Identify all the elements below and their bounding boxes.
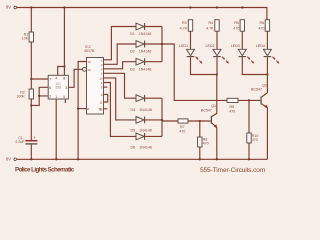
node A junction R1/R2/pin7 bbox=[30, 78, 32, 80]
resistor R7 bbox=[178, 119, 188, 133]
node 0V terminal bbox=[6, 156, 17, 161]
diode D1 bbox=[130, 23, 151, 36]
svg-text:BC547: BC547 bbox=[251, 88, 262, 92]
resistor R9 bbox=[227, 98, 238, 113]
svg-text:Q2: Q2 bbox=[262, 83, 267, 87]
resistor R3 bbox=[180, 20, 193, 32]
diode D4 bbox=[131, 95, 152, 112]
node junction top bus bbox=[161, 43, 163, 45]
svg-text:1N4148: 1N4148 bbox=[139, 32, 152, 36]
node junction rail-R10 bbox=[248, 158, 250, 160]
svg-text:470: 470 bbox=[179, 129, 185, 133]
svg-text:9V: 9V bbox=[6, 4, 11, 9]
svg-text:D4: D4 bbox=[131, 108, 136, 112]
wire R9 to Q2 base bbox=[238, 99, 260, 101]
diode D5 bbox=[131, 117, 152, 133]
svg-text:470: 470 bbox=[229, 109, 235, 113]
svg-text:470: 470 bbox=[203, 141, 209, 145]
svg-text:D2: D2 bbox=[130, 50, 135, 54]
node junction LED pair 1 bbox=[216, 73, 218, 75]
svg-text:6: 6 bbox=[49, 86, 51, 90]
wire CO stub bbox=[104, 108, 108, 110]
node junction rail-C1 bbox=[30, 158, 32, 160]
svg-text:4017B: 4017B bbox=[84, 49, 95, 53]
wire D4 cathode bbox=[145, 97, 162, 99]
wire R2 to node B bbox=[30, 99, 32, 140]
svg-text:10K: 10K bbox=[22, 37, 29, 41]
svg-text:+: + bbox=[33, 135, 36, 140]
wire O2 to D3 bbox=[104, 62, 137, 69]
wire D5 cathode bbox=[145, 119, 162, 121]
resistor R1 bbox=[22, 32, 34, 42]
svg-text:13: 13 bbox=[87, 60, 91, 64]
op-amp U2 4017 IC body bbox=[84, 45, 104, 114]
node junction R8 tap bbox=[199, 120, 201, 122]
svg-text:1N4148: 1N4148 bbox=[139, 129, 152, 133]
LED LED4 bbox=[256, 44, 279, 63]
resistor R2 bbox=[16, 89, 33, 99]
wire C1 to ground rail bbox=[30, 145, 32, 160]
svg-text:12: 12 bbox=[99, 107, 103, 111]
svg-text:1N4148: 1N4148 bbox=[139, 67, 152, 71]
svg-text:3: 3 bbox=[65, 86, 67, 90]
wire rail to R1 bbox=[30, 8, 32, 33]
wire LED1 cathode bbox=[191, 57, 217, 74]
svg-text:100K: 100K bbox=[16, 95, 25, 99]
diode D2 bbox=[130, 41, 151, 54]
resistor R5 bbox=[233, 20, 244, 32]
wire R8 drop bbox=[199, 121, 201, 137]
svg-text:BC547: BC547 bbox=[201, 109, 212, 113]
svg-text:1: 1 bbox=[55, 95, 57, 99]
svg-text:1N4148: 1N4148 bbox=[139, 146, 152, 150]
svg-text:Police Lights Schematic: Police Lights Schematic bbox=[15, 167, 75, 174]
svg-text:11: 11 bbox=[99, 101, 102, 105]
node junction rail-R5 bbox=[241, 6, 243, 8]
svg-text:1N4148: 1N4148 bbox=[139, 50, 152, 54]
node junction pin4/pin8 supply bbox=[63, 65, 65, 67]
svg-text:D1: D1 bbox=[130, 32, 135, 36]
wire bottom diode bus bbox=[162, 98, 178, 136]
LED LED2 bbox=[206, 44, 229, 63]
svg-text:555-Timer-Circuits.com: 555-Timer-Circuits.com bbox=[200, 167, 266, 174]
wire 0V ground rail bbox=[17, 158, 268, 160]
wire D3 cathode bbox=[145, 61, 162, 63]
svg-text:555: 555 bbox=[55, 86, 61, 90]
wire 555 pin 3 to 4017 CLK bbox=[68, 69, 82, 87]
wire R7 to Q1 base bbox=[188, 120, 211, 122]
svg-text:5: 5 bbox=[63, 95, 65, 99]
wire R3 to LED1 bbox=[190, 31, 192, 49]
transistor Q1 bbox=[201, 75, 217, 160]
resistor R4 bbox=[206, 20, 219, 32]
wire O3 to D4 bbox=[104, 73, 137, 98]
node junction rail-R8 bbox=[199, 158, 201, 160]
wire LED4 cathode bbox=[266, 57, 268, 74]
svg-text:470: 470 bbox=[252, 138, 258, 142]
svg-text:R4: R4 bbox=[208, 21, 213, 25]
wire D2 cathode bbox=[145, 43, 162, 45]
resistor R10 bbox=[247, 133, 259, 143]
svg-text:D3: D3 bbox=[130, 67, 135, 71]
node junction EN/MR bbox=[77, 107, 79, 109]
svg-text:LED1: LED1 bbox=[179, 44, 188, 48]
wire O1 to D2 bbox=[104, 44, 137, 64]
wire R5 to LED3 bbox=[241, 31, 243, 49]
svg-text:2: 2 bbox=[49, 95, 51, 99]
wire top diode bus bbox=[162, 27, 227, 101]
svg-text:LED2: LED2 bbox=[206, 44, 215, 48]
node junction bottom bus bbox=[161, 119, 163, 121]
svg-text:Q1: Q1 bbox=[211, 104, 216, 108]
resistor R8 bbox=[198, 137, 209, 147]
svg-text:1N4148: 1N4148 bbox=[139, 108, 152, 112]
diode D3 bbox=[130, 58, 151, 71]
svg-text:LED3: LED3 bbox=[231, 44, 240, 48]
capacitor C1 bbox=[15, 135, 37, 144]
diode D6 bbox=[131, 133, 152, 150]
svg-text:7: 7 bbox=[49, 78, 51, 82]
LED LED3 bbox=[231, 44, 254, 63]
wire R10 to ground bbox=[248, 143, 250, 159]
wire D1 cathode bbox=[145, 26, 162, 28]
svg-text:D5: D5 bbox=[131, 129, 136, 133]
node junction rail-R1 bbox=[30, 6, 32, 8]
svg-text:D6: D6 bbox=[131, 146, 136, 150]
svg-text:10: 10 bbox=[99, 77, 103, 81]
wire 555 pin 5 stub bbox=[64, 99, 66, 103]
svg-text:8: 8 bbox=[63, 77, 65, 81]
wire O9 to CO tie bbox=[104, 94, 108, 102]
node junction rail-Q1 emitter bbox=[216, 158, 218, 160]
wire 555 pin 1 to ground bbox=[55, 99, 57, 159]
node 9V terminal bbox=[6, 4, 17, 9]
svg-text:R6: R6 bbox=[259, 21, 264, 25]
svg-text:R3: R3 bbox=[182, 21, 187, 25]
LED LED1 bbox=[179, 44, 202, 63]
svg-text:LED4: LED4 bbox=[256, 44, 265, 48]
node junction rail-555 supply bbox=[63, 6, 65, 8]
wire R6 to LED4 bbox=[266, 31, 268, 49]
svg-text:4.7K: 4.7K bbox=[206, 26, 214, 30]
svg-text:14: 14 bbox=[87, 68, 91, 72]
wire R1 to node A bbox=[30, 42, 32, 79]
svg-text:2.2uF: 2.2uF bbox=[15, 140, 25, 144]
wire O4 to D5 bbox=[104, 78, 137, 120]
svg-text:470: 470 bbox=[259, 26, 265, 30]
wire 555 supply drop bbox=[58, 8, 65, 76]
node junction pin2 branch bbox=[38, 95, 40, 97]
wire O5 to D6 bbox=[104, 83, 137, 137]
resistor R6 bbox=[259, 20, 270, 32]
wire R4 to LED2 bbox=[216, 31, 218, 49]
wire O0 to D1 bbox=[104, 27, 137, 60]
wire node A to 555 pin 7 bbox=[31, 78, 48, 80]
node junction LED pair 2 bbox=[266, 73, 268, 75]
svg-text:R5: R5 bbox=[234, 21, 239, 25]
node junction rail-pin1 bbox=[55, 158, 57, 160]
wire LED3 cathode bbox=[242, 57, 267, 74]
wire R8 to ground bbox=[199, 147, 201, 159]
wire node B to pins 6 and 2 bbox=[31, 87, 48, 105]
node junction rail-4017 gnd bbox=[77, 158, 79, 160]
op-amp U1 555 IC body bbox=[48, 75, 68, 99]
wire D6 cathode bbox=[145, 135, 162, 137]
wire +9V top rail bbox=[17, 8, 267, 20]
node junction R10 tap bbox=[248, 99, 250, 101]
node junction rail-R3 bbox=[189, 6, 191, 8]
svg-text:470: 470 bbox=[233, 26, 239, 30]
wire O6 stub bbox=[104, 86, 108, 88]
wire R10 drop bbox=[248, 100, 250, 133]
wire EN and MR to ground bbox=[78, 62, 86, 160]
svg-text:4.7K: 4.7K bbox=[180, 26, 188, 30]
svg-text:4: 4 bbox=[55, 77, 57, 81]
svg-text:0V: 0V bbox=[6, 156, 11, 161]
wire node A to R2 bbox=[30, 79, 32, 89]
node junction rail-R4 bbox=[216, 6, 218, 8]
node CLK input circle bbox=[83, 67, 87, 71]
transistor Q2 bbox=[251, 75, 268, 160]
wire LED2 cathode bbox=[216, 57, 218, 74]
node B junction R2/C1/pins 2,6 bbox=[30, 104, 32, 106]
